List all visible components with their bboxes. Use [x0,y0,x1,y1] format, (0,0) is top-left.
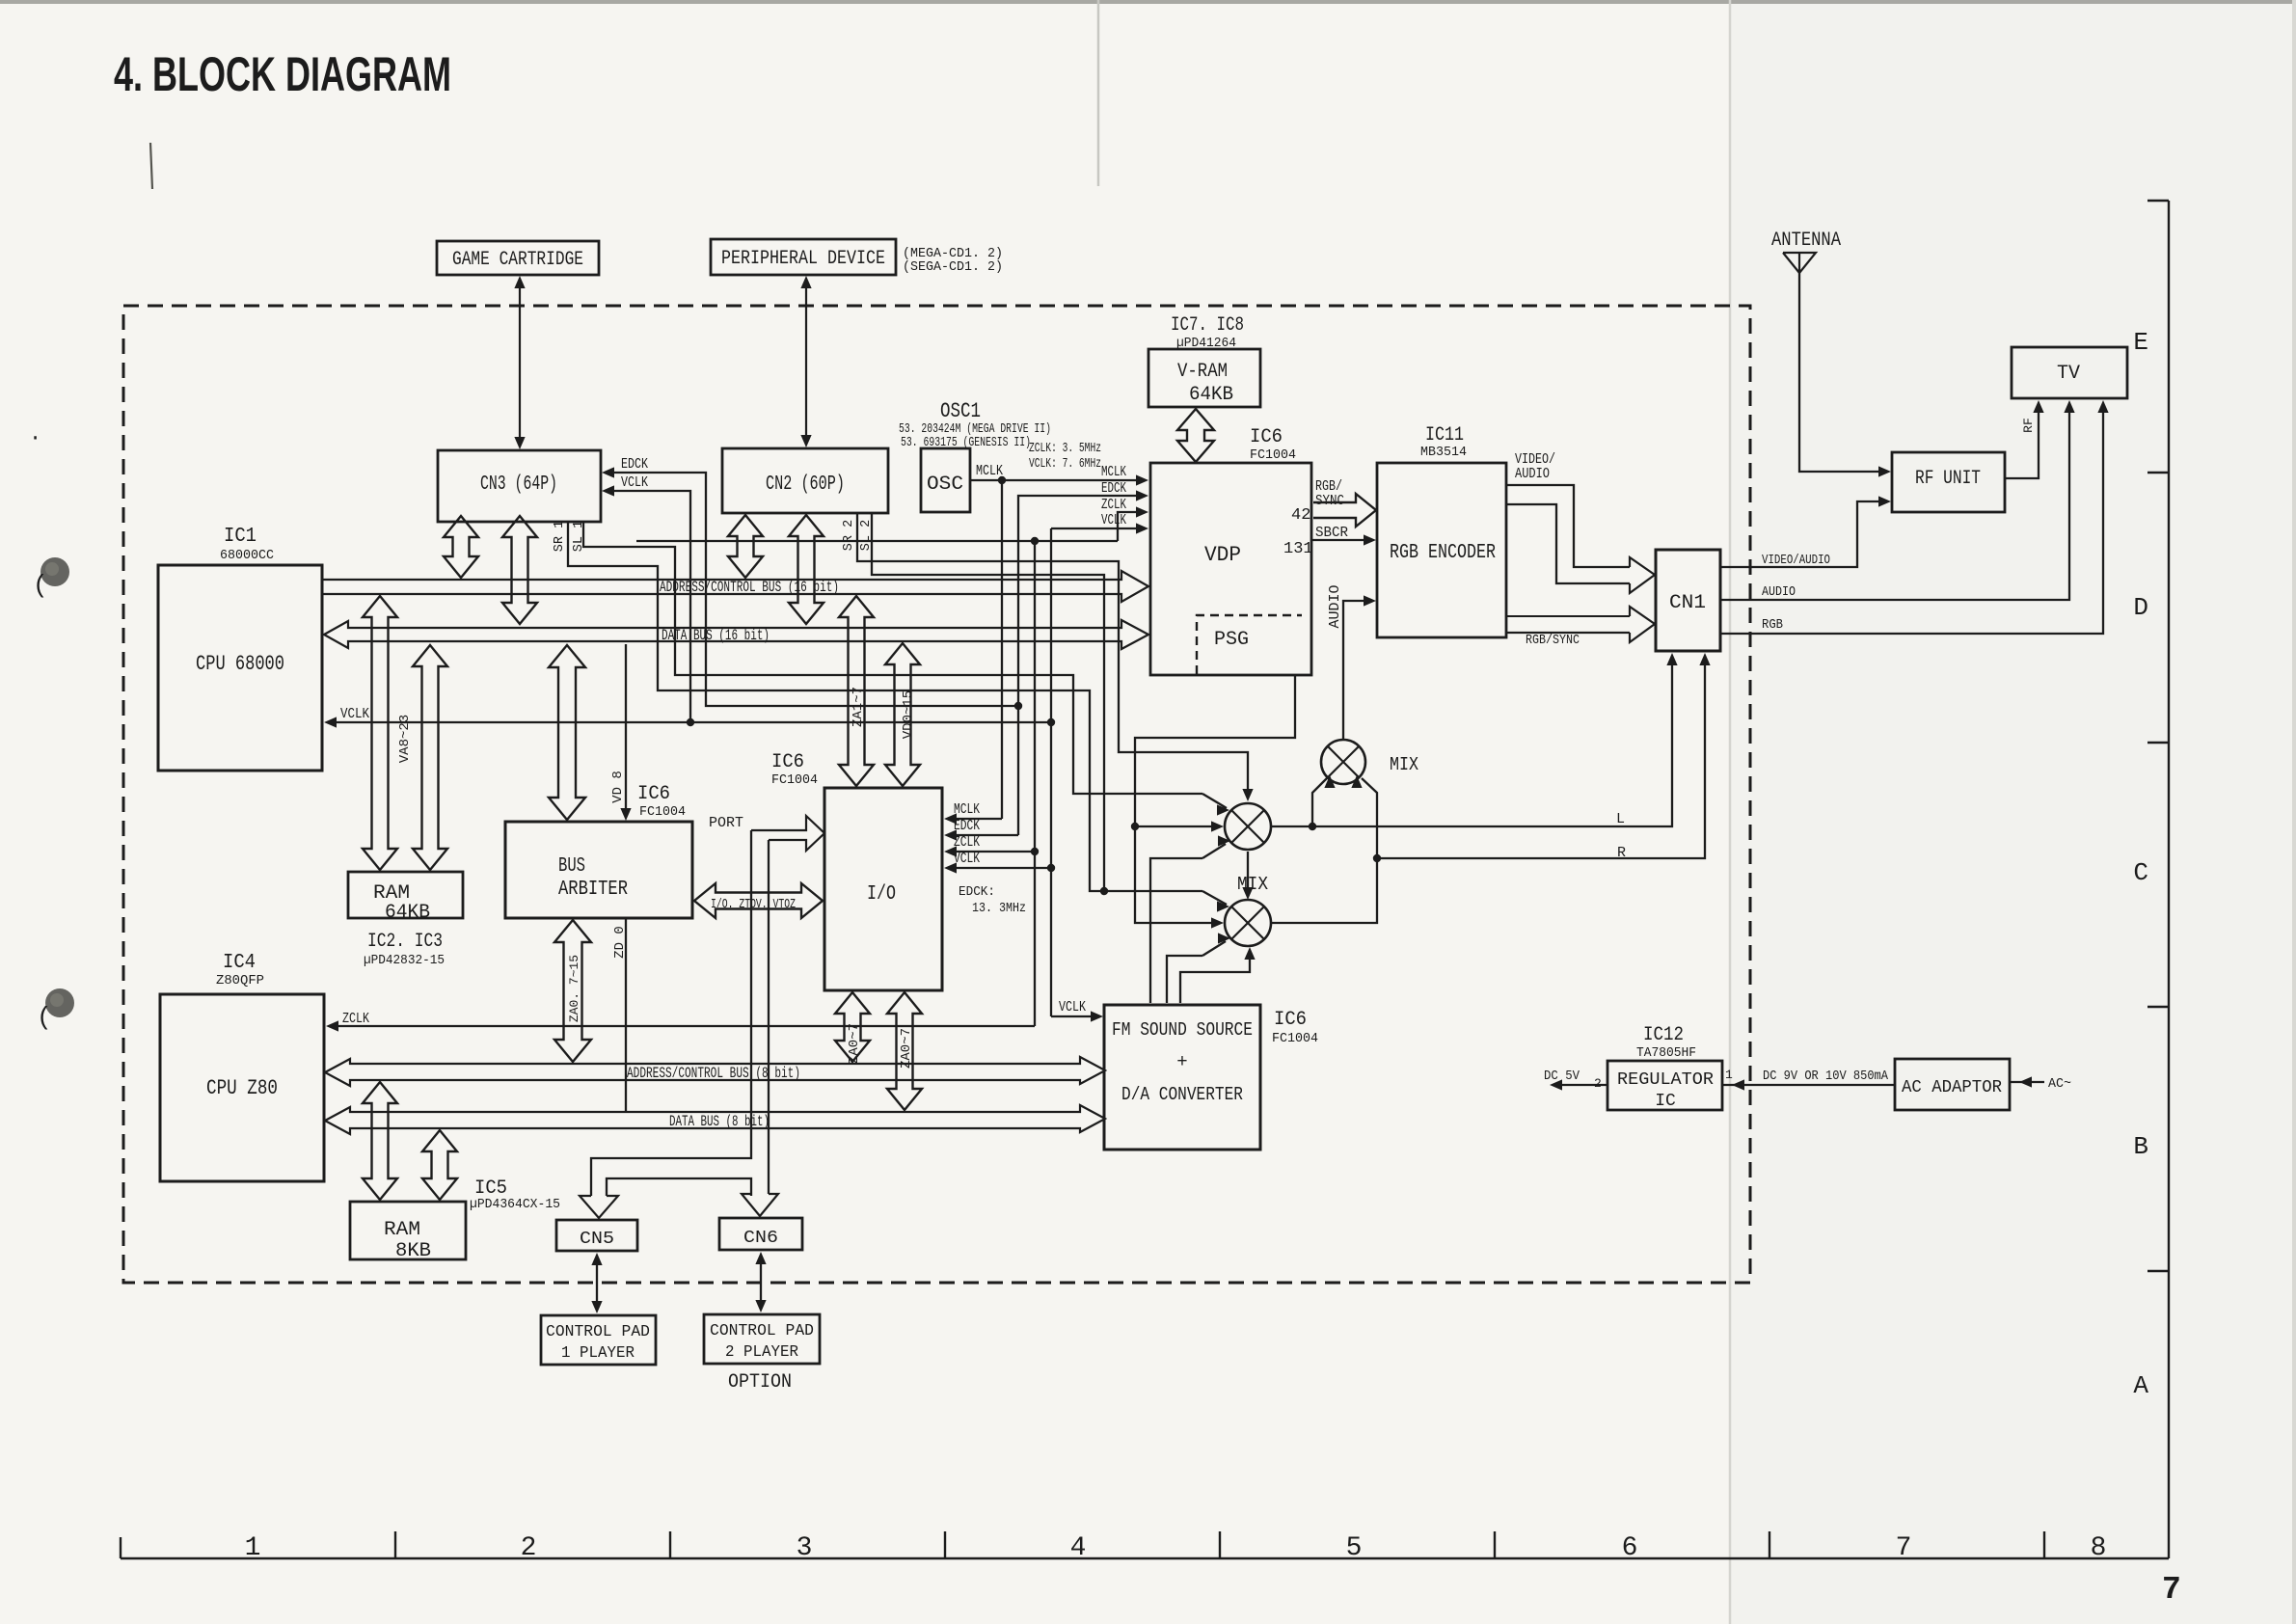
svg-text:IC1: IC1 [224,526,257,548]
svg-text:42: 42 [1291,506,1310,525]
svg-text:IC5: IC5 [474,1177,507,1200]
wire: EDCK from CN3 [611,473,1018,706]
mix circle: lower MIX [1225,900,1271,946]
svg-text:RGB: RGB [1762,617,1783,633]
arrowhead into RF UNIT (antenna) [1878,466,1891,476]
wire: SL1 diagonal into middle mix [1202,794,1227,808]
svg-text:D: D [2133,593,2148,622]
scan artifact: right page edge [2292,0,2296,1624]
fat arrow: bus arbiter to address bus 8 (ZA0 7~15) [554,920,591,1062]
wire: DC 9V line [1722,1084,1895,1086]
arrowhead: R into CN1 [1699,653,1710,665]
svg-text:IC6: IC6 [1274,1009,1307,1031]
arrowhead: VD8 into arbiter [620,808,631,821]
scan artifact: stray vertical stroke upper left [150,143,152,189]
arrowhead: DC 5V [1550,1079,1562,1090]
svg-text:EDCK:: EDCK: [959,884,995,900]
svg-text:VD 8: VD 8 [610,771,626,803]
svg-text:64KB: 64KB [385,902,430,924]
svg-text:REGULATOR: REGULATOR [1617,1070,1714,1090]
box: RAM 8KB [350,1202,466,1259]
wire: ZCLK into I/O [954,851,1035,853]
arrowhead: FM-R into lower mix [1244,947,1255,960]
wire: encoder rgb/sync band to CN1 [1506,615,1630,617]
arrowhead: L into CN1 [1666,653,1677,665]
svg-text:VCLK: VCLK [340,706,369,722]
svg-text:VCLK: VCLK [621,474,648,491]
svg-text:1: 1 [1725,1068,1733,1082]
svg-text:64KB: 64KB [1189,384,1233,406]
svg-text:5: 5 [1346,1533,1363,1563]
svg-text:CONTROL PAD: CONTROL PAD [546,1323,650,1341]
wire: SL2 from CN2 joins SR1 line [872,514,1104,891]
wire: PORT band inner line [768,840,770,1194]
wire: VD 8 line into bus arbiter [625,644,627,816]
arrowhead down control pad 1 [591,1301,602,1313]
junction: VCLK tap at riser [1047,718,1055,726]
arrowhead: ZCLK into VDP [1136,506,1148,517]
wire: VCLK from CN3 [611,491,690,722]
svg-text:SYNC: SYNC [1315,493,1344,509]
svg-text:ZCLK: ZCLK [342,1011,369,1027]
svg-text:I/O: I/O [867,883,896,906]
svg-text:VD0~15: VD0~15 [901,690,916,739]
svg-text:TA7805HF: TA7805HF [1636,1046,1696,1061]
svg-text:OPTION: OPTION [728,1371,792,1394]
border: bottom ruler tick 4 [944,1531,946,1558]
arrowhead: PSG into middle mix left [1211,821,1224,831]
arrowhead: AC into adaptor [2019,1076,2032,1087]
svg-text:VCLK: VCLK [1059,999,1086,1015]
svg-text:DATA BUS (8 bit): DATA BUS (8 bit) [669,1113,770,1130]
wire: ZCLK stub into VDP [1118,512,1138,541]
svg-text:AC ADAPTOR: AC ADAPTOR [1902,1078,2002,1097]
arrowhead up to peripheral device [800,276,811,288]
wire: FM to lower mix diagonal feed [1167,956,1202,1003]
arrowhead: PSG into lower mix left [1211,917,1224,928]
svg-text:53. 693175 (GENESIS II): 53. 693175 (GENESIS II) [901,436,1031,450]
arrowhead: VCLK into I/O [944,862,957,873]
arrowhead: SL1 into middle mix diag [1217,804,1229,815]
svg-text:MIX: MIX [1237,874,1269,895]
arrowhead: into lower mix top [1242,887,1253,900]
svg-text:CN1: CN1 [1669,592,1706,614]
svg-text:ANTENNA: ANTENNA [1771,230,1841,252]
border: right border tick D [2147,472,2169,474]
arrowhead: EDCK into VDP [1136,490,1148,501]
svg-text:EDCK: EDCK [954,818,980,834]
border: right border top tick [2147,200,2169,202]
svg-text:D/A CONVERTER: D/A CONVERTER [1121,1084,1243,1105]
arrowhead: VCLK into VDP [1136,523,1148,533]
svg-text:2 PLAYER: 2 PLAYER [725,1343,798,1362]
wire: AUDIO from CN1 to TV [1720,410,2069,600]
box: I/O [824,788,942,990]
svg-text:RGB ENCODER: RGB ENCODER [1390,542,1496,564]
svg-text:3: 3 [797,1533,813,1563]
svg-text:VCLK: VCLK [954,851,980,867]
wire: DC 5V output [1560,1084,1607,1086]
svg-text:DC 5V: DC 5V [1544,1069,1580,1084]
wire: PORT band outer line [591,830,751,1196]
svg-text:EDCK: EDCK [1101,480,1126,497]
box: RF UNIT [1892,452,2005,512]
box: CPU 68000 [158,565,322,771]
wire: SR1 from CN3 to lower mix upper-left [568,523,1202,891]
svg-text:8: 8 [2091,1533,2107,1563]
box: CN6 [719,1218,802,1250]
svg-text:RAM: RAM [384,1219,420,1241]
svg-text:ZA0~7: ZA0~7 [847,1023,862,1064]
svg-text:µPD42832-15: µPD42832-15 [364,954,445,968]
wire: R to upper mix [1362,778,1377,858]
fat arrow: address bus 8 to RAM 8KB [363,1082,397,1200]
wire: upper mix AUDIO to RGB encoder [1343,601,1365,740]
arrowhead: VCLK into FM [1091,1011,1103,1021]
box: CPU Z80 [160,994,324,1181]
border: bottom ruler line [121,1557,2169,1559]
arrowhead: ZCLK into CPU Z80 [326,1020,338,1031]
svg-text:I/O. ZTOV. VTOZ: I/O. ZTOV. VTOZ [711,898,796,912]
svg-text:FM SOUND SOURCE: FM SOUND SOURCE [1112,1019,1253,1041]
box: CN1 [1656,550,1720,651]
svg-text:RGB/SYNC: RGB/SYNC [1526,633,1580,648]
svg-text:1 PLAYER: 1 PLAYER [561,1344,635,1363]
bus: DATA BUS (16 bit) [324,620,1148,649]
junction: MCLK tap [998,476,1006,484]
fat arrow: I/O to data bus 8 (ZA0~7 right) [887,992,922,1110]
wire: ZD 0 line from arbiter to data bus 8 [625,919,627,1111]
border: bottom ruler tick 6 [1494,1531,1496,1558]
svg-text:IC12: IC12 [1643,1024,1684,1046]
svg-text:ZA0. 7~15: ZA0. 7~15 [567,955,581,1022]
fat arrow: V-RAM to VDP [1177,409,1214,462]
svg-text:(SEGA-CD1. 2): (SEGA-CD1. 2) [903,260,1003,275]
svg-text:IC4: IC4 [223,952,256,974]
wire: PORT band CN5 inner line [607,1178,751,1196]
arrowhead up to game cartridge [514,276,525,288]
junction: SL2 join [1100,887,1108,895]
svg-text:Z80QFP: Z80QFP [216,974,264,988]
mix circle: middle MIX [1225,803,1271,850]
svg-text:4. BLOCK DIAGRAM: 4. BLOCK DIAGRAM [114,47,451,101]
arrowhead down to CN3 [514,437,525,449]
svg-text:VCLK: VCLK [1101,512,1126,528]
wire: VCLK into I/O [954,867,1051,869]
arrowhead: SR2 into middle mix top [1242,789,1253,801]
svg-text:AUDIO: AUDIO [1327,584,1343,628]
wire: peripheral device to CN2 double arrow [805,282,807,442]
arrowhead: AUDIO into encoder [1364,595,1376,606]
arrowhead: AUDIO into TV [2064,400,2074,413]
junction: EDCK tap [1014,702,1022,710]
svg-text:IC: IC [1655,1092,1676,1111]
svg-text:CONTROL PAD: CONTROL PAD [710,1322,814,1340]
wire: PSG branch to middle mix left [1135,826,1215,827]
wire: EDCK riser to VDP [1018,496,1138,706]
arrowhead: SR1 into lower mix diag [1217,901,1229,911]
svg-text:BUS: BUS [558,855,585,878]
svg-text:IC7. IC8: IC7. IC8 [1171,314,1244,337]
svg-text:MIX: MIX [1390,754,1419,775]
arrowhead: DC 9V into regulator [1732,1079,1744,1090]
svg-text:AUDIO: AUDIO [1762,584,1796,600]
svg-text:SR 1: SR 1 [553,521,567,552]
svg-text:7: 7 [2162,1572,2181,1608]
svg-text:FC1004: FC1004 [639,805,686,820]
bus: ADDRESS/CONTROL BUS (8 bit) [325,1057,1105,1086]
wire: MCLK from OSC to VDP [970,479,1138,481]
bus: DATA BUS (8 bit) [325,1105,1105,1134]
svg-text:+: + [1176,1051,1187,1072]
wire: SR2 from CN2 to middle mix top [857,514,1248,797]
wire: game cartridge to CN3 double arrow [519,282,521,444]
svg-text:·: · [29,426,41,450]
wire: ZCLK distribution horizontal [636,540,1118,542]
svg-text:MCLK: MCLK [954,801,980,818]
svg-text:ADDRESS/CONTROL BUS (16 bit): ADDRESS/CONTROL BUS (16 bit) [660,579,839,596]
arrowhead: RGB into TV [2097,400,2108,413]
wire: VCLK to CPU 68000 [334,721,1051,723]
box: PSG dashed [1197,615,1302,674]
arrowhead: RF into TV [2033,400,2043,413]
svg-text:(: ( [37,1003,52,1032]
wire: EDCK into I/O [954,834,1018,836]
fat arrow: I/O to address bus 8 (ZA0~7 left) [835,992,870,1062]
svg-text:ZA0~7: ZA0~7 [899,1028,914,1069]
border: bottom ruler start tick [120,1537,122,1558]
box: REGULATOR IC [1607,1061,1722,1110]
arrowhead: EDCK into CN3 [602,467,614,477]
arrowhead: FM-L into middle mix [1218,835,1230,846]
svg-text:E: E [2133,328,2148,357]
svg-text:R: R [1617,845,1626,861]
border: bottom ruler tick 2 [394,1531,396,1558]
svg-text:6: 6 [1622,1533,1638,1563]
svg-text:7: 7 [1896,1533,1912,1563]
wire: SR1 diagonal into lower mix [1202,891,1227,905]
bus: ADDRESS/CONTROL BUS (16 bit) [322,571,1148,602]
junction: PSG branch [1131,823,1139,830]
fat arrow: address bus 16 to I/O (ZA1~7) [839,596,874,786]
wire: ZCLK into CPU Z80 [336,1025,1035,1027]
enclosure: main dashed boundary [123,306,1750,1283]
arrowhead: L into upper mix [1324,775,1335,788]
scan artifact: punch hole blob lower [45,988,74,1017]
svg-text:GAME CARTRIDGE: GAME CARTRIDGE [452,249,583,271]
box: FM SOUND SOURCE + D/A CONVERTER [1104,1005,1260,1150]
svg-text:CPU Z80: CPU Z80 [206,1076,278,1100]
svg-text:8KB: 8KB [395,1240,431,1262]
svg-text:4: 4 [1070,1533,1087,1563]
box: VDP [1150,463,1311,675]
svg-text:µPD4364CX-15: µPD4364CX-15 [470,1198,560,1212]
svg-text:IC6: IC6 [771,751,804,773]
fat arrow: data bus 16 to I/O (VD0~15) [885,643,920,786]
svg-text:OSC: OSC [927,474,963,496]
junction: VCLK join from CN3 [687,718,694,726]
svg-text:PSG: PSG [1214,629,1249,651]
svg-text:CN5: CN5 [580,1230,614,1249]
border: right border tick A [2147,1270,2169,1272]
scan artifact: page fold faint vertical line [1729,0,1732,1624]
border: bottom ruler tick 7 [1769,1531,1770,1558]
svg-text:RF: RF [2021,418,2036,433]
border: right border line [2168,201,2170,1558]
svg-text:(MEGA-CD1. 2): (MEGA-CD1. 2) [903,247,1003,261]
svg-text:IC6: IC6 [637,783,670,805]
fat arrow: bus arbiter to I/O (I/O ZTOV VTOZ) [694,883,823,918]
svg-text:FC1004: FC1004 [1272,1032,1318,1046]
wire: CN5 to control pad 1 [596,1258,598,1309]
svg-text:IC6: IC6 [1250,426,1283,448]
svg-text:VIDEO/AUDIO: VIDEO/AUDIO [1762,553,1830,568]
fat arrowhead: into CN1 lower [1630,607,1655,642]
arrowhead: MCLK into VDP [1136,474,1148,485]
box: OSC [921,448,970,512]
wire: MCLK riser to I/O [1001,480,1003,819]
wire: encoder video/audio step lower [1506,504,1630,583]
mix circle: upper MIX [1321,740,1365,784]
box: BUS ARBITER [505,822,692,918]
svg-text:VDP: VDP [1204,543,1241,567]
fat arrowhead: into CN1 upper [1630,557,1655,593]
border: bottom ruler tick 3 [669,1531,671,1558]
box: V-RAM 64KB [1148,349,1260,407]
svg-text:MB3514: MB3514 [1420,446,1467,460]
svg-text:SR 2: SR 2 [842,520,856,551]
svg-text:VCLK: 7. 6MHz: VCLK: 7. 6MHz [1029,457,1101,472]
wire: RGB from CN1 to TV [1720,410,2103,634]
svg-text:MCLK: MCLK [976,463,1003,479]
scan artifact: faint vertical line top middle [1097,0,1100,186]
svg-text:AC~: AC~ [2048,1077,2071,1092]
box: RAM 64KB [348,872,463,918]
fat arrow: CN2 to address bus 16 [728,515,763,578]
arrowhead: R into upper mix [1351,775,1362,788]
svg-text:PERIPHERAL DEVICE: PERIPHERAL DEVICE [721,248,885,270]
svg-text:ZCLK: ZCLK [954,834,980,851]
svg-text:PORT: PORT [709,815,743,831]
box: CN2 (60P) [722,448,888,513]
fat arrow: CN2 to data bus 16 [789,515,824,624]
svg-text:53. 203424M (MEGA DRIVE II): 53. 203424M (MEGA DRIVE II) [899,422,1051,437]
wire: SBCR line [1311,539,1365,541]
arrowhead: MCLK into I/O [944,813,957,824]
svg-text:TV: TV [2057,363,2080,385]
svg-text:FC1004: FC1004 [1250,448,1296,463]
fat arrow: data bus 8 to RAM 8KB [422,1130,457,1200]
wire: RF from RF UNIT to TV [2005,410,2039,478]
fat arrow: data bus 16 to bus arbiter [549,645,585,820]
fat arrowhead: PORT into CN6 [742,1194,778,1216]
fat arrowhead: PORT into CN5 [580,1196,618,1218]
svg-text:1: 1 [245,1533,261,1563]
svg-text:EDCK: EDCK [621,456,648,473]
wire: SL1 from CN3 to middle mix upper-left [583,523,1202,794]
arrowhead up CN6 [755,1252,766,1264]
svg-text:ZD 0: ZD 0 [612,926,628,959]
wire: VCLK riser [1050,528,1052,1016]
svg-text:CN2 (60P): CN2 (60P) [766,474,845,496]
box: RGB ENCODER [1377,463,1506,637]
svg-text:2: 2 [521,1533,537,1563]
fat arrow: RGB/SYNC VDP to encoder [1313,494,1376,527]
wire: FM lower diagonal [1202,941,1226,956]
wire: L output from middle mix [1271,659,1672,826]
arrowhead: VCLK into CPU 68000 [324,717,337,727]
fat arrow: CN3 to address bus 16 [444,516,478,578]
fat arrow: CN3 to data bus 16 [502,516,537,624]
svg-text:CPU 68000: CPU 68000 [196,652,284,676]
wire: FM-L diagonal [1202,844,1226,858]
wire: PSG output from VDP [1135,675,1295,923]
fat arrow: address bus 16 to RAM 64KB [363,596,397,870]
svg-text:B: B [2133,1132,2148,1161]
svg-text:ZCLK: 3. 5MHz: ZCLK: 3. 5MHz [1029,442,1101,456]
border: right border tick B [2147,1006,2169,1008]
box: AC ADAPTOR [1895,1059,2010,1110]
wire: EDCK down to I/O [1017,706,1019,835]
svg-text:(: ( [33,571,48,600]
box: CN5 [556,1220,637,1251]
svg-text:FC1004: FC1004 [771,773,818,788]
svg-text:CN6: CN6 [743,1229,778,1248]
svg-text:V-RAM: V-RAM [1177,361,1228,383]
wire: ZCLK riser down [1034,541,1036,1026]
svg-text:DATA BUS (16 bit): DATA BUS (16 bit) [662,627,770,644]
wire: AC input [2010,1081,2044,1083]
svg-text:ADDRESS/CONTROL BUS (8 bit): ADDRESS/CONTROL BUS (8 bit) [627,1065,800,1082]
junction: R tap for upper mix [1373,854,1381,862]
svg-text:OSC1: OSC1 [940,399,981,423]
arrowhead: FM into lower mix diag [1218,933,1230,943]
svg-text:A: A [2133,1371,2148,1400]
svg-text:DC 9V OR 10V 850mA: DC 9V OR 10V 850mA [1763,1069,1889,1084]
wire: MCLK into I/O [954,818,1002,820]
junction: L tap for upper mix [1309,823,1316,830]
svg-text:RF UNIT: RF UNIT [1915,468,1981,490]
wire: VIDEO/AUDIO from CN1 [1720,501,1880,567]
wire: antenna to RF UNIT [1799,273,1880,472]
wire: VCLK stub into VDP [1051,528,1138,529]
wire: R output from lower mix [1271,659,1705,923]
arrowhead down to CN2 [800,435,811,447]
border: bottom ruler tick 8 [2043,1531,2045,1558]
svg-text:IC11: IC11 [1425,424,1464,447]
svg-text:CN3 (64P): CN3 (64P) [480,474,557,496]
scan artifact: page fold tone strip [1730,0,2296,1624]
box: CONTROL PAD 2 PLAYER [704,1314,820,1364]
wire: VCLK into FM [1051,1015,1094,1017]
wire: middle mix to lower mix [1247,852,1249,894]
border: right border tick C [2147,742,2169,744]
wire: FM right channel to lower mix bottom [1180,953,1250,1003]
arrowhead: EDCK into I/O [944,829,957,840]
box: PERIPHERAL DEVICE [711,239,896,275]
svg-text:68000CC: 68000CC [220,549,274,563]
svg-text:ZCLK: ZCLK [1101,497,1126,513]
arrowhead down control pad 2 [755,1300,766,1313]
arrowhead: ZCLK into I/O [944,846,957,856]
svg-text:2: 2 [1594,1076,1602,1091]
junction: ZCLK to I/O tap [1031,848,1039,855]
svg-text:L: L [1616,811,1625,827]
wire: PORT band arrow into I/O [751,816,824,851]
wire: encoder video/audio step upper [1506,485,1630,567]
arrowhead: VCLK into CN3 [602,485,614,496]
svg-text:AUDIO: AUDIO [1515,466,1550,482]
